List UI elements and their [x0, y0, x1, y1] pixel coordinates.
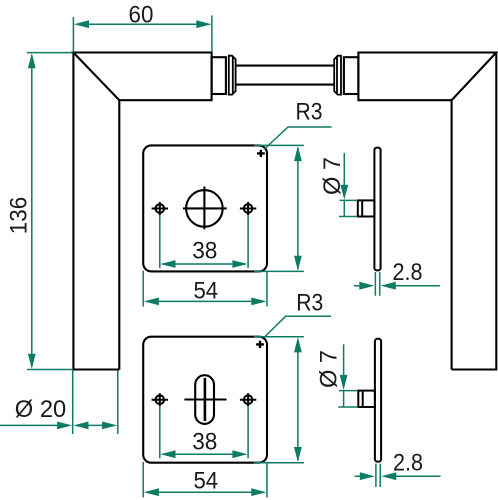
left handle head — [73, 53, 211, 101]
svg-text:R3: R3 — [296, 98, 323, 125]
left flange — [229, 56, 236, 95]
dimension diameter 20 — [0, 371, 118, 435]
rosette 2 radius label R3 — [265, 290, 331, 338]
side view 2 dimension diameter 7 — [316, 344, 358, 407]
rosette 1 spindle hole — [183, 187, 227, 230]
spindle — [236, 66, 335, 85]
dimension 60 — [73, 1, 212, 52]
svg-text:54: 54 — [193, 468, 218, 495]
side view 2 plate — [375, 339, 381, 462]
svg-text:38: 38 — [192, 238, 217, 265]
rosette 1 height dimension — [254, 145, 304, 271]
rosette 1 dimension 38 — [160, 215, 248, 268]
left neck collar — [212, 57, 226, 94]
side view 1 dimension diameter 7 — [319, 153, 357, 217]
rosette 1 left screw hole — [152, 202, 168, 215]
rosette 2 corner mark — [256, 341, 264, 348]
side view 1 screw boss — [358, 200, 375, 216]
side view 2 screw boss — [358, 391, 375, 407]
rosette 1 corner mark — [257, 150, 265, 157]
rosette 2 dimension 54 — [143, 462, 267, 498]
svg-text:Ø 7: Ø 7 — [319, 157, 346, 195]
rosette 2 right screw hole — [240, 393, 256, 406]
rosette 1 radius label R3 — [264, 98, 332, 149]
side view 1 plate — [374, 148, 380, 271]
svg-text:2.8: 2.8 — [393, 450, 423, 477]
rosette 2 plate — [143, 337, 267, 463]
side view 2 dimension 2.8 — [355, 450, 441, 488]
svg-text:54: 54 — [193, 278, 218, 305]
right flange — [334, 56, 341, 95]
svg-text:38: 38 — [192, 428, 217, 455]
right neck collar — [344, 57, 359, 94]
svg-text:2.8: 2.8 — [393, 259, 423, 286]
rosette 1 plate — [143, 145, 267, 271]
rosette 1 right screw hole — [240, 202, 256, 215]
dimension 136 — [6, 53, 73, 370]
svg-text:Ø 20: Ø 20 — [15, 396, 66, 423]
svg-text:136: 136 — [6, 197, 33, 234]
svg-text:60: 60 — [129, 1, 154, 28]
rosette 2 keyhole slot — [184, 375, 226, 424]
svg-text:R3: R3 — [296, 290, 323, 317]
rosette 2 height dimension — [254, 337, 304, 463]
svg-text:Ø 7: Ø 7 — [316, 350, 343, 388]
rosette 2 dimension 38 — [160, 406, 248, 458]
right handle grip — [452, 53, 498, 370]
side view 1 dimension 2.8 — [354, 259, 440, 296]
right handle head — [358, 53, 496, 101]
left handle grip — [72, 53, 119, 370]
rosette 1 dimension 54 — [143, 271, 267, 307]
rosette 2 left screw hole — [152, 393, 168, 406]
